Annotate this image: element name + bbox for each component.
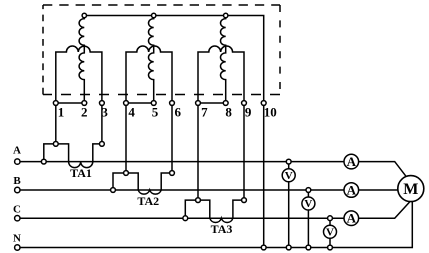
terminal 8 (223, 101, 228, 106)
transformer TA3 secondary winding (185, 200, 244, 222)
svg-text:B: B (13, 175, 21, 187)
ammeter PA1 (344, 154, 359, 169)
voltmeter PV3 (324, 225, 337, 238)
node tap B (306, 188, 311, 193)
voltmeter PV2 (302, 197, 315, 210)
phase C entry terminal (15, 216, 20, 221)
TA1 terminal K1 (53, 142, 58, 147)
jumper terminals 7-8 (198, 102, 226, 104)
svg-text:9: 9 (245, 104, 252, 119)
jumper terminals 1-2 (56, 102, 85, 104)
meter enclosure dashed box (43, 5, 280, 95)
jumper terminals 4-5 (126, 102, 154, 104)
terminal 2 (82, 101, 87, 106)
svg-text:V: V (304, 198, 312, 210)
wire terminal 3 to TA1 K2 (101, 105, 103, 143)
wire voltmeter PV3 branch (329, 218, 331, 247)
svg-text:V: V (285, 170, 293, 182)
neutral N entry terminal (15, 245, 20, 250)
node N junction 3 (328, 245, 333, 250)
svg-text:TA2: TA2 (137, 194, 159, 208)
svg-text:V: V (326, 227, 334, 239)
node TA2 tap (111, 188, 116, 193)
current coil winding element 2 (126, 46, 172, 101)
terminal 6 (170, 101, 175, 106)
node N junction 10 (261, 245, 266, 250)
TA3 terminal K1 (196, 198, 201, 203)
transformer TA2 secondary winding (113, 173, 172, 194)
voltage coil winding element 3 (221, 18, 226, 101)
terminal 3 (100, 101, 105, 106)
node tap C (328, 216, 333, 221)
node coil1 top (82, 13, 86, 17)
neutral line N wire (17, 202, 412, 248)
TA3 terminal K2 (242, 198, 247, 203)
terminal 10 (261, 101, 266, 106)
svg-text:10: 10 (264, 104, 277, 119)
wire top bus to terminal 10 (84, 16, 263, 101)
wire voltmeter PV2 branch (307, 190, 309, 248)
svg-text:3: 3 (101, 104, 108, 119)
wire terminal 7 to TA3 K1 (197, 105, 199, 200)
svg-text:A: A (347, 211, 357, 226)
svg-text:C: C (13, 203, 21, 215)
node TA1 tap (41, 159, 46, 164)
ammeter PA3 (344, 211, 359, 226)
voltage coil winding element 1 (79, 18, 84, 101)
phase B entry terminal (15, 187, 20, 192)
svg-text:N: N (13, 232, 21, 244)
svg-text:6: 6 (175, 104, 182, 119)
wire terminal 6 to TA2 K2 (171, 105, 173, 173)
phase A entry terminal (15, 159, 20, 164)
svg-text:TA3: TA3 (211, 222, 233, 236)
svg-text:7: 7 (201, 104, 208, 119)
phase line A wire (17, 162, 406, 177)
terminal 5 (151, 101, 156, 106)
node TA3 tap (183, 216, 188, 221)
node tap A (286, 159, 291, 164)
voltage coil winding element 2 (149, 18, 154, 101)
svg-text:1: 1 (58, 104, 65, 119)
terminal 4 (124, 101, 129, 106)
terminal 1 (53, 101, 58, 106)
wire terminal 10 to N (263, 105, 265, 247)
node N junction 1 (286, 245, 291, 250)
current coil winding element 3 (198, 46, 244, 101)
svg-text:2: 2 (81, 104, 88, 119)
wire voltmeter PV1 branch (288, 162, 290, 248)
svg-text:4: 4 (128, 104, 135, 119)
wire terminal 4 to TA2 K1 (125, 105, 127, 173)
wire terminal 9 to TA3 K2 (243, 105, 245, 200)
phase line B wire (17, 189, 398, 191)
svg-text:5: 5 (152, 104, 159, 119)
svg-text:A: A (13, 145, 21, 157)
ammeter PA2 (344, 183, 359, 198)
svg-text:TA1: TA1 (70, 166, 92, 180)
node coil2 top (152, 13, 156, 17)
node coil3 top (224, 13, 228, 17)
svg-text:M: M (403, 181, 418, 198)
svg-text:A: A (347, 182, 357, 197)
svg-text:8: 8 (225, 104, 232, 119)
voltmeter PV1 (282, 169, 295, 182)
TA2 terminal K1 (124, 171, 129, 176)
TA2 terminal K2 (170, 171, 175, 176)
phase line C wire (17, 202, 409, 218)
current coil winding element 1 (56, 46, 102, 101)
transformer TA1 secondary winding (44, 144, 102, 168)
svg-text:A: A (347, 154, 357, 169)
terminal 9 (242, 101, 247, 106)
TA1 terminal K2 (100, 142, 105, 147)
node N junction 2 (306, 245, 311, 250)
motor M (398, 176, 424, 202)
wire terminal 1 to TA1 K1 (55, 105, 57, 143)
terminal 7 (196, 101, 201, 106)
